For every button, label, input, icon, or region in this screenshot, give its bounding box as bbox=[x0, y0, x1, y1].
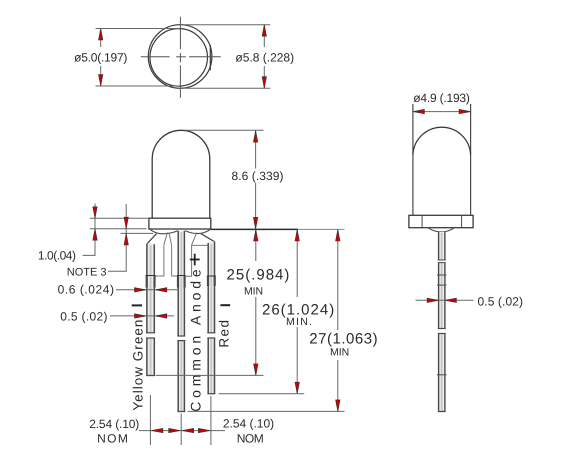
middle lead break mark bbox=[177, 336, 185, 341]
dim 5.8 bottom extension line bbox=[180, 87, 270, 89]
note3 dimension vertical line + leader bbox=[108, 204, 126, 271]
LED3 lead body bbox=[438, 232, 446, 412]
note3 arrow down bbox=[124, 217, 128, 229]
middle lead thick band bbox=[177, 276, 186, 288]
left lead thick band bbox=[146, 276, 156, 288]
top view outer circle (flange dia 5.8) bbox=[148, 25, 212, 89]
pitch dimension line bbox=[139, 430, 225, 432]
svg-text:MIN: MIN bbox=[244, 286, 263, 298]
dim 27 vertical line bbox=[337, 229, 339, 330]
minus label left lead bbox=[132, 304, 142, 306]
pitch arrows pair 2 bbox=[182, 428, 194, 432]
top view center mark vertical tick bbox=[179, 53, 181, 62]
LED3 flange bbox=[409, 215, 473, 227]
svg-text:ø4.9 (.193): ø4.9 (.193) bbox=[413, 91, 470, 105]
LED3 dim 0.5 leader line bbox=[416, 299, 474, 301]
svg-text:0.5 (.02): 0.5 (.02) bbox=[478, 295, 524, 309]
top view flat chord bbox=[209, 45, 211, 70]
dim 26 vertical line bbox=[296, 229, 298, 297]
middle lead body bbox=[177, 231, 185, 412]
dim 5.0 arrow up bbox=[99, 29, 103, 41]
svg-text:ø5.0(.197): ø5.0(.197) bbox=[74, 50, 127, 64]
svg-text:2.54 (.10): 2.54 (.10) bbox=[223, 417, 274, 431]
dim 25 bottom reference line (yellow-green lead tip) bbox=[156, 374, 264, 376]
LED3 left side + extension bbox=[412, 104, 414, 215]
LED3 dim 4.9 arrow left bbox=[413, 109, 425, 113]
dim 26 bottom reference line (red lead tip) bbox=[219, 393, 305, 395]
LED3 dim 0.5 arrow right bbox=[427, 298, 439, 302]
svg-text:0.6 (.024): 0.6 (.024) bbox=[58, 282, 114, 296]
LED2 body outline (dome + cylinder) bbox=[152, 130, 210, 218]
dim 0.6 leader line bbox=[116, 289, 178, 291]
left lead inner paddle: diagonal, vertical, bottom step bbox=[155, 232, 168, 276]
flange bottom extension line left bbox=[90, 228, 147, 230]
dim 5.0 bottom extension line bbox=[96, 85, 180, 87]
dim 25 vertical line bbox=[255, 229, 257, 261]
LED3 lead tick bbox=[437, 374, 447, 376]
dim 1.0 arrow down bbox=[93, 207, 97, 219]
note3 reference line (lead frame exposure) bbox=[121, 232, 154, 234]
dim 1.0 vertical line + leader bbox=[83, 204, 96, 256]
dim 5.8 vertical dimension line bbox=[263, 25, 265, 47]
pitch arrows pair 1 bbox=[151, 428, 163, 432]
dim 26 arrow down bbox=[295, 382, 299, 394]
left lead body bbox=[146, 244, 155, 376]
svg-text:1.0(.04): 1.0(.04) bbox=[38, 249, 76, 263]
dim 5.8 arrow up bbox=[262, 25, 266, 37]
LED2 epoxy meniscus right arc bbox=[185, 229, 210, 233]
LED3 epoxy meniscus bbox=[428, 228, 454, 232]
top view crosshair vertical bbox=[179, 17, 181, 50]
dim 26 arrow up bbox=[295, 230, 299, 242]
middle lead paddle right side bbox=[186, 232, 197, 276]
svg-text:NOM: NOM bbox=[237, 432, 264, 446]
flange top extension line left bbox=[90, 217, 149, 219]
LED3 dim 4.9 dimension line bbox=[413, 111, 471, 113]
dim 25 arrow down bbox=[254, 364, 258, 376]
dim 27 arrow down bbox=[336, 400, 340, 412]
minus label right lead bbox=[220, 304, 230, 306]
pitch extension line left lead bbox=[149, 395, 151, 445]
dim 0.5 arrow left bbox=[155, 314, 167, 318]
right lead thick band bbox=[207, 276, 216, 286]
LED3 lead tick band bbox=[437, 275, 447, 285]
svg-text:2.54 (.10): 2.54 (.10) bbox=[89, 417, 139, 431]
dim 0.6 arrow left bbox=[155, 288, 167, 292]
pitch extension line right lead bbox=[210, 396, 212, 445]
dim 1.0 arrow up bbox=[93, 229, 97, 241]
dim 27 bottom reference line (common anode lead tip) bbox=[188, 410, 345, 412]
note3 arrow up bbox=[124, 233, 128, 245]
dim 0.5 arrow right bbox=[135, 314, 147, 318]
dim 8.6 arrow down bbox=[253, 217, 257, 229]
svg-text:NOTE 3: NOTE 3 bbox=[67, 267, 107, 279]
LED3 flange inner line right bbox=[461, 215, 463, 227]
seating plane extension line right bbox=[211, 228, 298, 230]
dim 8.6 arrow up bbox=[253, 131, 257, 143]
top view center mark horizontal tick bbox=[176, 56, 186, 58]
LED3 dim 0.5 arrow left bbox=[445, 298, 457, 302]
top view inner circle (epoxy dia 5.0) bbox=[150, 29, 208, 87]
dim 5.0 vertical dimension line bbox=[100, 29, 102, 48]
pitch extension line middle lead bbox=[180, 414, 182, 446]
dim 0.6 arrow right bbox=[135, 288, 147, 292]
svg-text:Red: Red bbox=[216, 320, 231, 348]
dim 25 arrow up bbox=[254, 230, 258, 242]
LED3 flange inner line left bbox=[421, 215, 423, 227]
left lead outer diagonal bbox=[147, 234, 156, 244]
LED3 right side + extension bbox=[470, 104, 472, 215]
right lead body bbox=[207, 241, 215, 393]
svg-text:NOM: NOM bbox=[97, 431, 128, 445]
right lead inner web: horizontal + vertical bbox=[192, 245, 210, 276]
right lead outer diagonal bbox=[201, 233, 214, 241]
svg-text:27(1.063): 27(1.063) bbox=[309, 330, 377, 347]
top view crosshair horizontal bbox=[141, 56, 170, 58]
LED3 lead break 2 bbox=[438, 329, 446, 334]
LED2 epoxy meniscus left arc bbox=[150, 229, 178, 234]
dim 8.6 top extension line (dome top) bbox=[185, 129, 264, 131]
svg-text:25(.984): 25(.984) bbox=[227, 267, 290, 284]
dim 0.5 leader line bbox=[110, 315, 174, 317]
svg-text:ø5.8 (.228): ø5.8 (.228) bbox=[235, 50, 294, 64]
LED3 lead break 1 bbox=[438, 260, 446, 263]
dim 8.6 vertical line bbox=[255, 131, 257, 169]
plus label middle lead bbox=[190, 254, 200, 266]
svg-text:8.6 (.339): 8.6 (.339) bbox=[232, 169, 284, 183]
dim 5.8 top extension line bbox=[180, 24, 270, 26]
svg-text:Yellow Green: Yellow Green bbox=[131, 320, 146, 411]
dim 5.8 arrow down bbox=[262, 77, 266, 89]
middle lead paddle left side bbox=[169, 233, 177, 276]
dim 5.0 arrow down bbox=[99, 75, 103, 87]
LED3 dome arc bbox=[413, 127, 471, 154]
svg-text:MIN: MIN bbox=[330, 347, 349, 359]
LED2 flange bbox=[149, 218, 211, 229]
svg-text:0.5 (.02): 0.5 (.02) bbox=[60, 310, 107, 324]
right lead break mark bbox=[207, 333, 215, 338]
dim 27 arrow up bbox=[336, 230, 340, 242]
left lead break mark bbox=[146, 333, 155, 338]
LED3 dim 4.9 arrow right bbox=[459, 109, 471, 113]
dim 5.0 top extension line bbox=[96, 28, 180, 30]
